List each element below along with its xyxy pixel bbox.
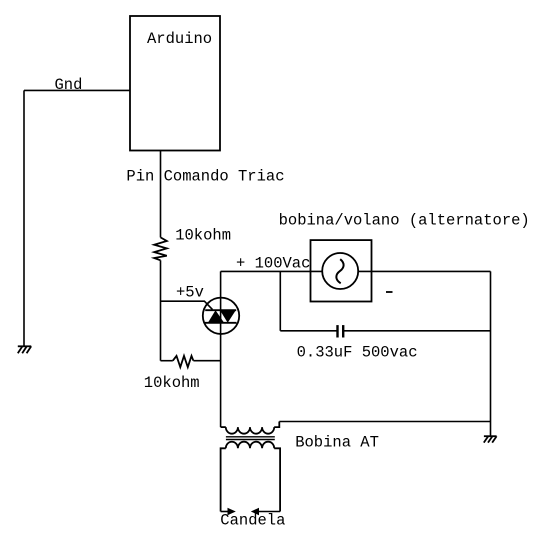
svg-text:Pin Comando Triac: Pin Comando Triac <box>126 167 284 185</box>
svg-text:10kohm: 10kohm <box>144 374 200 392</box>
svg-text:bobina/volano (alternatore): bobina/volano (alternatore) <box>279 212 530 230</box>
secondary winding humps <box>226 442 274 449</box>
spark gap left electrode <box>221 508 236 515</box>
ground left <box>18 346 31 353</box>
triac Q1 <box>203 298 239 334</box>
ground right <box>484 436 497 442</box>
secondary right lead <box>274 448 280 511</box>
Arduino box <box>130 16 220 151</box>
primary winding cups <box>226 427 274 434</box>
wire capacitor branch vertical <box>279 271 281 330</box>
wire triac main vertical <box>220 271 222 427</box>
wire top horizontal 100Vac <box>221 270 491 272</box>
AC sine squiggle <box>336 259 343 283</box>
svg-text:Candela: Candela <box>220 512 285 530</box>
wire +5v to gate <box>161 301 213 309</box>
secondary left lead <box>221 448 226 511</box>
primary entry step left <box>221 426 226 428</box>
core line 1 <box>226 436 275 438</box>
svg-text:Bobina AT: Bobina AT <box>295 434 379 452</box>
wire right vertical <box>490 271 492 436</box>
capacitor C1 <box>280 325 490 337</box>
core line 2 <box>226 439 275 441</box>
svg-text:Arduino: Arduino <box>147 30 212 48</box>
svg-text:+5v: +5v <box>176 284 204 302</box>
resistor R2 10kohm horizontal <box>161 356 221 367</box>
wire Gnd horizontal <box>24 89 130 91</box>
label minus <box>386 291 393 293</box>
AC source circle <box>322 253 358 289</box>
svg-text:10kohm: 10kohm <box>175 227 231 245</box>
wire bottom horizontal to right <box>279 421 490 423</box>
wire pin comando <box>160 151 162 238</box>
wire Gnd vertical <box>23 90 25 346</box>
spark gap right electrode <box>251 508 280 515</box>
svg-text:+ 100Vac: + 100Vac <box>236 255 310 273</box>
svg-text:Gnd: Gnd <box>55 76 83 94</box>
resistor R1 10kohm vertical <box>154 237 167 260</box>
alternator box <box>311 240 372 301</box>
wire R1 to R2 vertical <box>160 260 162 360</box>
transformer T1 Bobina AT <box>221 422 281 512</box>
svg-text:0.33uF 500vac: 0.33uF 500vac <box>297 343 418 361</box>
primary exit step right <box>274 422 279 428</box>
